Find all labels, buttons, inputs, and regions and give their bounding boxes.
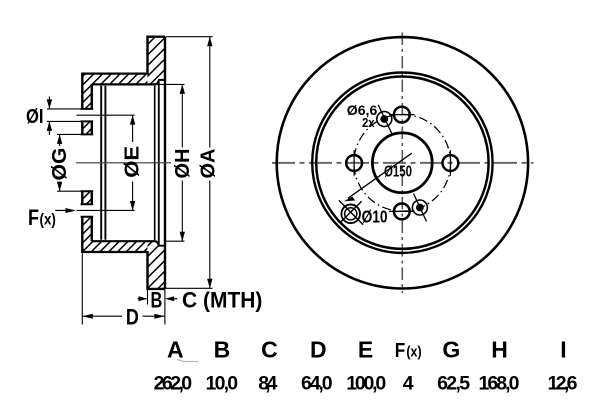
svg-text:2x: 2x: [362, 116, 375, 130]
bottom bolt hole centerline: [77, 209, 135, 211]
svg-text:F: F: [28, 205, 39, 230]
hatched flange strip below bottom bolt hole: [82, 217, 92, 242]
svg-text:64,0: 64,0: [301, 373, 333, 395]
hat bottom outer surface: [82, 251, 148, 253]
cavity edge line x=154.7: [154, 86, 156, 240]
dimension ØI: arrows: [48, 97, 50, 109]
svg-text:4: 4: [403, 373, 414, 395]
svg-text:F: F: [395, 339, 406, 362]
bottom bolt hole edges: [81, 204, 94, 217]
svg-text:62,5: 62,5: [437, 373, 470, 395]
hat top outer surface: [82, 72, 148, 74]
Ø10 position marker: double circle with X cross: [339, 200, 363, 224]
dimension B: arrows outside: [138, 298, 147, 300]
svg-text:I: I: [560, 337, 566, 363]
center bore circle: [372, 133, 432, 193]
flange boss edge line x=105.4: [104, 86, 106, 240]
left view axis centerline: [76, 162, 171, 164]
cavity step edge line x=158.8: [158, 81, 160, 244]
svg-text:A: A: [167, 337, 184, 363]
svg-text:B: B: [214, 337, 231, 363]
vertical centerline: [401, 33, 403, 294]
disc outline bottom: left face + bottom edge: [148, 252, 166, 289]
svg-text:D: D: [310, 337, 327, 363]
extension line below disc left face: [147, 290, 149, 305]
dimension ØI: extension lines: [47, 109, 82, 122]
svg-text:262,0: 262,0: [154, 373, 193, 395]
disc right face full height: [164, 37, 166, 289]
flange boss edge line x=101.2: [100, 86, 102, 240]
hatched flange strip above top bolt hole: [82, 84, 92, 109]
dimension ØA: dim line + arrows: [209, 37, 211, 289]
svg-text:8,4: 8,4: [258, 373, 277, 395]
svg-text:100,0: 100,0: [346, 373, 386, 395]
svg-text:ØI: ØI: [26, 105, 44, 128]
svg-text:168,0: 168,0: [479, 373, 520, 395]
bolt circle (dash-dot): [354, 114, 451, 211]
bore edges: [81, 134, 94, 191]
svg-text:ØH: ØH: [171, 149, 194, 179]
svg-text:12,6: 12,6: [548, 373, 578, 395]
hat top inner surface with fillet: [92, 81, 159, 85]
hatched section: friction ring top: [148, 37, 166, 85]
svg-text:10,0: 10,0: [206, 373, 239, 395]
dimension ØG: extension lines: [57, 134, 82, 191]
horizontal centerline: [272, 162, 534, 164]
hatched section: hat bottom wall: [82, 241, 147, 252]
hatched section: hat top wall: [82, 74, 147, 85]
small hole Ø6,6 upper-left (filled) + radial tick: [377, 105, 392, 134]
bolt hole left: [346, 150, 362, 176]
friction/hat ring circle inner (thick): [316, 77, 488, 249]
svg-text:B: B: [151, 287, 163, 312]
hat bottom inner surface with fillet: [92, 241, 159, 245]
faint scan artifact under header A: [177, 360, 198, 362]
small hole Ø6,6 lower-right (filled) + radial tick: [412, 194, 427, 222]
svg-text:ØE: ØE: [121, 146, 144, 178]
hatched section: friction ring bottom: [148, 241, 166, 289]
top bolt hole centerline: [77, 114, 135, 116]
dimension C arrow: [167, 298, 177, 300]
hatched flange strip between top bolt hole and bore: [82, 121, 92, 134]
bolt hole right: [443, 150, 459, 176]
bolt hole bottom: [389, 204, 415, 220]
dimension ØE: dim line + arrows: [132, 115, 134, 210]
svg-text:H: H: [491, 337, 508, 363]
hatched flange strip between bore and bottom bolt hole: [82, 191, 92, 204]
extension line below flange face: [81, 254, 83, 325]
Ø150 leader line + arrow: [348, 153, 412, 198]
flange inner face segments: [91, 84, 93, 241]
svg-text:Ø10: Ø10: [362, 206, 388, 226]
table headers: [167, 337, 567, 363]
dimension ØH: extension lines: [158, 84, 185, 241]
svg-text:C: C: [261, 337, 278, 363]
table values: [154, 373, 578, 395]
dimension ØH: dim line + arrows: [181, 84, 183, 241]
extension line below disc right face: [164, 290, 166, 325]
friction/hat ring circle outer (thin): [312, 73, 492, 253]
svg-text:(x): (x): [406, 344, 421, 361]
bolt hole top: [389, 107, 415, 123]
svg-text:Ø150: Ø150: [384, 163, 412, 180]
svg-text:G: G: [442, 337, 460, 363]
svg-text:(x): (x): [40, 211, 56, 228]
top bolt hole edges: [81, 109, 94, 122]
outer circle (ØA): [277, 37, 528, 288]
dimension D: dim line + arrows + label: [82, 315, 165, 317]
flange outer face segments: [81, 73, 83, 254]
svg-text:D: D: [126, 304, 139, 329]
svg-text:ØG: ØG: [48, 148, 71, 181]
dimension ØG: dim line + arrows: [59, 134, 61, 191]
dimension ØA: extension lines: [162, 37, 213, 289]
svg-text:E: E: [358, 337, 373, 363]
disc outline top: left face + top edge: [148, 37, 166, 74]
svg-text:ØA: ØA: [197, 148, 220, 178]
top ledge: [158, 79, 165, 81]
bottom ledge: [158, 245, 165, 247]
svg-text:C (MTH): C (MTH): [182, 288, 262, 313]
